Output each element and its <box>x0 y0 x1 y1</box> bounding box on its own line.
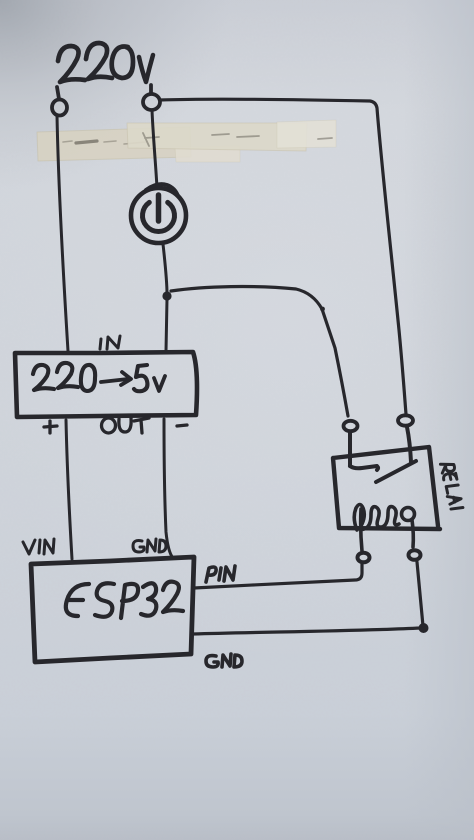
wire ESP32 PIN to relay coil- <box>194 564 362 588</box>
label PIN <box>206 566 235 582</box>
label GND top <box>133 539 166 552</box>
wire coil to bottom-left terminal <box>361 509 362 551</box>
junction GND corner <box>419 623 429 633</box>
wire converter OUT- to ESP32 GND <box>164 419 173 558</box>
tape strip right-end <box>277 120 336 148</box>
terminal right (N input) <box>143 85 160 110</box>
relay K1 terminal bottom-left <box>358 553 370 563</box>
terminal left (L input) <box>52 87 67 116</box>
relay K1 terminal top-left <box>344 421 358 431</box>
wire junction pen blob <box>320 307 325 312</box>
wire converter OUT+ to ESP32 VIN <box>66 420 72 559</box>
wire junction to converter IN- <box>166 299 167 351</box>
wire GND corner up to relay terminal <box>417 562 423 626</box>
relay K1 terminal bottom-right <box>409 550 421 560</box>
label GND bottom <box>206 654 242 667</box>
converter U1 box 220V to 5V <box>15 352 197 417</box>
label 220 to 5V inside converter <box>33 363 165 391</box>
switch S1 power button <box>131 184 186 243</box>
label RELAI rotated <box>440 462 463 511</box>
wire coil to bottom-right terminal <box>412 520 413 547</box>
label plus <box>44 421 57 433</box>
label ESP32 inside <box>66 582 183 618</box>
wire relay COM terminal stub <box>407 427 411 462</box>
tape strip small lower-middle <box>175 146 240 162</box>
tape strip upper-middle <box>127 123 307 151</box>
wire junction to relay switch contact <box>171 287 348 416</box>
wire ESP32 GND to relay coil+ <box>193 628 421 634</box>
wire relay NO terminal stub <box>348 432 352 466</box>
relay K1 box <box>333 447 440 529</box>
wire left terminal to converter IN+ <box>57 115 68 351</box>
relay fixed contact <box>350 466 378 470</box>
label IN <box>100 336 120 349</box>
relay coil end loop <box>402 508 415 521</box>
junction node <box>162 291 171 300</box>
tape strip lower-left <box>37 127 191 161</box>
label minus <box>177 425 187 426</box>
label OUT <box>102 418 150 433</box>
wire switch to junction <box>163 244 167 294</box>
wire right terminal to relay (top horizontal + right vertical) <box>160 99 406 414</box>
wire right terminal to switch <box>152 110 157 188</box>
relay switch armature <box>376 461 416 482</box>
label VIN <box>23 539 54 554</box>
relay coil winding <box>354 505 399 531</box>
relay K1 terminal top-right <box>398 415 413 425</box>
label 220V <box>58 43 153 82</box>
ESP32 U2 box <box>31 557 194 662</box>
